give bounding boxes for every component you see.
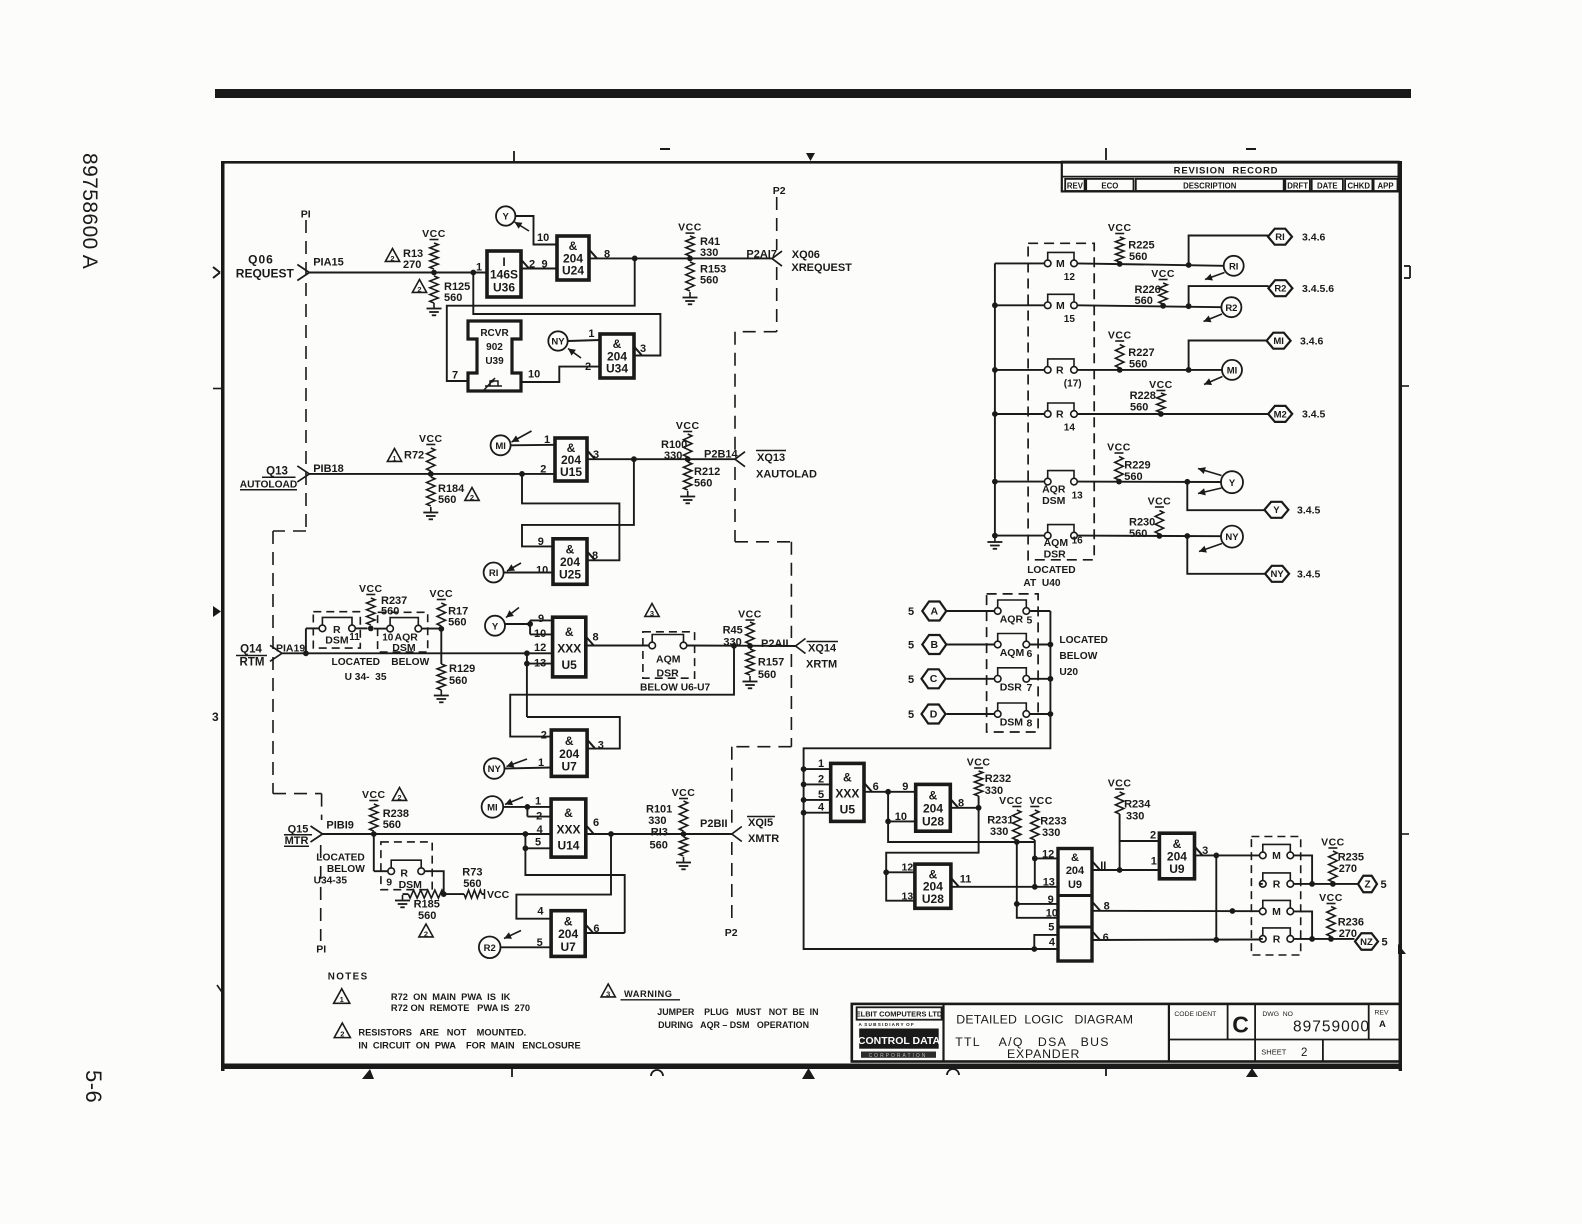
svg-text:RCVR: RCVR <box>480 328 509 339</box>
svg-text:CONTROL DATA: CONTROL DATA <box>858 1035 941 1047</box>
svg-text:VCC: VCC <box>1108 330 1132 342</box>
svg-text:1: 1 <box>538 757 544 769</box>
svg-text:NY: NY <box>1270 569 1284 580</box>
svg-text:LOCATED: LOCATED <box>316 853 364 864</box>
svg-text:1: 1 <box>544 434 550 446</box>
svg-text:R227: R227 <box>1128 347 1154 359</box>
svg-text:PIA15: PIA15 <box>313 256 344 268</box>
svg-text:R: R <box>1056 365 1064 377</box>
svg-text:270: 270 <box>1339 863 1357 875</box>
svg-text:U28: U28 <box>922 814 944 828</box>
svg-text:R157: R157 <box>758 657 784 669</box>
svg-text:VCC: VCC <box>999 795 1023 807</box>
svg-text:PIBI9: PIBI9 <box>326 820 354 832</box>
svg-text:Y: Y <box>1273 505 1280 516</box>
svg-text:R: R <box>1273 879 1281 891</box>
svg-text:VCC: VCC <box>422 228 446 240</box>
svg-text:2: 2 <box>424 930 428 939</box>
svg-text:10: 10 <box>537 232 549 244</box>
svg-text:330: 330 <box>1126 811 1144 823</box>
svg-text:560: 560 <box>650 840 668 852</box>
svg-text:VCC: VCC <box>359 583 383 595</box>
svg-text:M: M <box>1056 258 1065 270</box>
svg-text:VCC: VCC <box>967 757 991 769</box>
svg-text:U36: U36 <box>493 280 515 294</box>
svg-text:RTM: RTM <box>240 656 265 668</box>
svg-text:330: 330 <box>700 247 718 259</box>
svg-text:16: 16 <box>1072 536 1084 547</box>
svg-text:MI: MI <box>1273 336 1284 347</box>
svg-text:(17): (17) <box>1064 378 1082 389</box>
svg-text:7: 7 <box>1027 682 1033 694</box>
svg-text:NZ: NZ <box>1360 937 1373 948</box>
svg-text:2: 2 <box>417 285 421 294</box>
svg-text:1: 1 <box>588 328 594 340</box>
svg-text:2: 2 <box>397 793 401 802</box>
svg-text:5: 5 <box>1382 937 1388 949</box>
svg-text:Z: Z <box>1364 879 1370 890</box>
svg-text:C: C <box>930 673 938 685</box>
svg-text:CODE IDENT: CODE IDENT <box>1174 1011 1216 1018</box>
svg-text:JUMPER PLUG MUST NOT B: JUMPER PLUG MUST NOT BE IN <box>657 1007 818 1017</box>
svg-text:VCC: VCC <box>1319 892 1343 904</box>
svg-text:BELOW: BELOW <box>327 864 365 875</box>
svg-text:D: D <box>930 708 938 720</box>
svg-text:R228: R228 <box>1130 390 1156 402</box>
svg-text:VCC: VCC <box>678 222 702 234</box>
svg-text:3.4.6: 3.4.6 <box>1302 232 1326 244</box>
svg-text:XREQUEST: XREQUEST <box>791 262 852 274</box>
svg-text:A: A <box>931 605 939 617</box>
svg-text:560: 560 <box>700 275 718 287</box>
svg-text:560: 560 <box>1124 471 1142 483</box>
svg-text:6: 6 <box>1103 932 1109 944</box>
svg-text:AQM: AQM <box>1000 647 1025 659</box>
svg-text:P2: P2 <box>725 927 738 939</box>
svg-text:330: 330 <box>664 450 682 462</box>
svg-text:560: 560 <box>758 669 776 681</box>
svg-text:U24: U24 <box>562 264 584 278</box>
svg-text:2: 2 <box>536 811 542 823</box>
svg-text:R72: R72 <box>404 450 424 462</box>
svg-text:U7: U7 <box>562 760 578 774</box>
svg-text:5: 5 <box>1048 922 1054 934</box>
svg-text:330: 330 <box>1042 827 1060 839</box>
svg-text:DSR: DSR <box>1044 549 1067 561</box>
svg-text:12: 12 <box>902 862 914 874</box>
svg-text:3.4.5: 3.4.5 <box>1297 569 1321 581</box>
svg-text:560: 560 <box>1129 528 1147 540</box>
svg-text:REVISION RECORD: REVISION RECORD <box>1174 165 1279 176</box>
svg-text:REV: REV <box>1375 1010 1389 1017</box>
svg-text:R: R <box>400 867 408 879</box>
svg-text:6: 6 <box>593 817 599 829</box>
svg-text:1: 1 <box>340 995 344 1004</box>
svg-text:APP: APP <box>1378 182 1394 191</box>
svg-text:DSM: DSM <box>1000 717 1024 729</box>
svg-text:REV: REV <box>1067 182 1084 191</box>
svg-text:6: 6 <box>593 923 599 935</box>
svg-text:560: 560 <box>438 494 456 506</box>
svg-text:10: 10 <box>528 369 540 381</box>
svg-text:RI: RI <box>489 568 499 579</box>
svg-text:CORPORATION: CORPORATION <box>869 1053 928 1059</box>
svg-text:DRFT: DRFT <box>1287 182 1308 191</box>
svg-text:5-6: 5-6 <box>81 1070 106 1103</box>
svg-text:3: 3 <box>598 740 604 752</box>
svg-text:12: 12 <box>534 642 546 654</box>
svg-text:M: M <box>1056 300 1065 312</box>
svg-text:204: 204 <box>923 801 943 815</box>
svg-text:R: R <box>1056 409 1064 421</box>
svg-text:XXX: XXX <box>556 822 580 836</box>
svg-text:R234: R234 <box>1124 799 1151 811</box>
svg-text:5: 5 <box>1027 614 1033 626</box>
svg-text:R2: R2 <box>484 943 496 954</box>
svg-text:2: 2 <box>585 361 591 373</box>
svg-text:Y: Y <box>1229 478 1236 489</box>
svg-text:10: 10 <box>895 811 907 823</box>
svg-text:9: 9 <box>1048 894 1054 906</box>
svg-text:15: 15 <box>1064 314 1076 325</box>
svg-text:13: 13 <box>1072 491 1084 502</box>
svg-text:12: 12 <box>1064 272 1076 283</box>
svg-text:AQM: AQM <box>1044 537 1069 549</box>
svg-text:PI: PI <box>316 944 326 956</box>
svg-text:1: 1 <box>818 758 824 770</box>
svg-text:LOCATED BELOW: LOCATED BELOW <box>332 657 430 668</box>
svg-text:13: 13 <box>902 891 914 903</box>
svg-text:R2: R2 <box>1225 303 1237 314</box>
svg-text:R72 ON REMOTE PWA IS 270: R72 ON REMOTE PWA IS 270 <box>391 1003 530 1013</box>
svg-text:C: C <box>1232 1012 1249 1038</box>
svg-text:R225: R225 <box>1128 240 1154 252</box>
svg-text:U7: U7 <box>560 940 576 954</box>
svg-text:5: 5 <box>535 837 541 849</box>
svg-text:5: 5 <box>908 674 914 686</box>
svg-text:VCC: VCC <box>1148 496 1172 508</box>
svg-text:9: 9 <box>538 536 544 548</box>
svg-text:Y: Y <box>492 621 499 632</box>
svg-text:9: 9 <box>538 613 544 625</box>
svg-text:R2: R2 <box>1274 284 1286 295</box>
svg-text:560: 560 <box>449 675 467 687</box>
svg-text:13: 13 <box>1043 876 1055 888</box>
svg-text:89759000: 89759000 <box>1293 1019 1370 1036</box>
svg-text:8: 8 <box>1027 717 1033 729</box>
svg-text:M: M <box>1272 906 1281 918</box>
svg-text:R: R <box>1273 934 1281 946</box>
svg-text:10: 10 <box>534 628 546 640</box>
svg-text:NY: NY <box>1225 532 1239 543</box>
svg-text:LOCATED: LOCATED <box>1059 635 1107 646</box>
svg-text:VCC: VCC <box>1151 268 1175 280</box>
svg-text:&: & <box>843 771 852 785</box>
svg-text:10: 10 <box>536 565 548 577</box>
svg-text:10: 10 <box>1046 908 1058 920</box>
svg-text:3.4.6: 3.4.6 <box>1300 336 1324 348</box>
svg-text:MI: MI <box>487 803 498 814</box>
svg-text:LOCATED: LOCATED <box>1027 565 1075 576</box>
svg-text:P2B14: P2B14 <box>704 448 739 460</box>
svg-text:XQI5: XQI5 <box>748 817 773 829</box>
svg-text:U14: U14 <box>557 838 579 852</box>
svg-text:14: 14 <box>1064 423 1076 434</box>
svg-text:VCC: VCC <box>738 609 762 621</box>
svg-text:U39: U39 <box>485 356 504 367</box>
svg-text:VCC: VCC <box>1108 222 1132 234</box>
svg-text:560: 560 <box>383 819 401 831</box>
svg-text:2: 2 <box>541 730 547 742</box>
svg-text:&: & <box>929 788 938 802</box>
svg-text:560: 560 <box>463 878 481 890</box>
svg-text:U9: U9 <box>1068 879 1082 891</box>
svg-text:XRTM: XRTM <box>806 659 837 671</box>
svg-text:XXX: XXX <box>557 641 581 655</box>
svg-text:R73: R73 <box>462 867 482 879</box>
svg-text:R129: R129 <box>449 663 475 675</box>
svg-text:MI: MI <box>1227 366 1238 377</box>
svg-text:Y: Y <box>503 212 510 223</box>
svg-text:XXX: XXX <box>835 787 859 801</box>
svg-text:VCC: VCC <box>1029 795 1053 807</box>
svg-text:1: 1 <box>1151 856 1157 868</box>
svg-text:XQ06: XQ06 <box>792 249 820 261</box>
svg-text:U 34- 35: U 34- 35 <box>345 672 387 683</box>
svg-text:WARNING: WARNING <box>624 989 672 999</box>
svg-text:9: 9 <box>542 259 548 271</box>
svg-text:2: 2 <box>1301 1047 1307 1059</box>
svg-text:XQ13: XQ13 <box>757 452 785 464</box>
svg-text:RI3: RI3 <box>651 826 668 838</box>
svg-text:P2: P2 <box>773 185 786 197</box>
svg-text:Q15: Q15 <box>288 823 309 835</box>
svg-text:560: 560 <box>444 292 462 304</box>
svg-text:560: 560 <box>448 616 466 628</box>
svg-text:2: 2 <box>470 493 474 502</box>
svg-text:VCC: VCC <box>676 420 700 432</box>
svg-text:U5: U5 <box>562 658 578 672</box>
svg-text:5: 5 <box>908 606 914 618</box>
svg-text:NY: NY <box>488 764 502 775</box>
svg-text:U9: U9 <box>1169 862 1185 876</box>
svg-text:3: 3 <box>650 609 654 618</box>
svg-text:VCC: VCC <box>362 789 386 801</box>
svg-text:U34: U34 <box>606 362 628 376</box>
svg-text:3: 3 <box>640 343 646 355</box>
svg-text:12: 12 <box>1042 849 1054 861</box>
svg-text:RI: RI <box>1229 261 1239 272</box>
svg-text:8: 8 <box>604 248 610 260</box>
svg-text:RESISTORS ARE NOT MOUNT: RESISTORS ARE NOT MOUNTED. <box>358 1028 526 1038</box>
svg-text:560: 560 <box>418 910 436 922</box>
svg-text:R231: R231 <box>987 815 1013 827</box>
svg-text:2: 2 <box>340 1030 344 1039</box>
svg-text:DSM: DSM <box>1042 495 1066 507</box>
svg-text:IN CIRCUIT ON PWA FOR M: IN CIRCUIT ON PWA FOR MAIN ENCLOSURE <box>358 1040 580 1050</box>
svg-text:XAUTOLAD: XAUTOLAD <box>756 469 817 481</box>
svg-text:M2: M2 <box>1274 409 1287 420</box>
svg-text:U25: U25 <box>559 568 581 582</box>
svg-text:VCC: VCC <box>429 588 453 600</box>
svg-text:VCC: VCC <box>1107 442 1131 454</box>
svg-text:P2AII: P2AII <box>761 638 789 650</box>
svg-text:5: 5 <box>818 789 824 801</box>
svg-text:DWG NO: DWG NO <box>1262 1011 1293 1018</box>
svg-text:11: 11 <box>349 632 360 643</box>
svg-text:5: 5 <box>1381 879 1387 891</box>
svg-text:3.4.5: 3.4.5 <box>1302 409 1326 421</box>
svg-text:4: 4 <box>1049 937 1056 949</box>
svg-text:Q14: Q14 <box>240 644 262 656</box>
svg-text:RI: RI <box>1275 232 1285 243</box>
svg-text:VCC: VCC <box>487 889 510 901</box>
svg-text:XMTR: XMTR <box>748 833 779 845</box>
svg-text:A S U B S I D I A R Y O F: A S U B S I D I A R Y O F <box>859 1022 914 1027</box>
svg-text:9: 9 <box>386 876 392 888</box>
svg-text:270: 270 <box>1339 928 1357 940</box>
svg-text:R233: R233 <box>1040 816 1066 828</box>
svg-text:R45: R45 <box>723 625 743 637</box>
svg-text:89758600 A: 89758600 A <box>78 153 101 269</box>
svg-text:8: 8 <box>592 550 598 562</box>
svg-text:R101: R101 <box>646 803 672 815</box>
svg-text:ECO: ECO <box>1101 182 1118 191</box>
svg-text:5: 5 <box>908 640 914 652</box>
svg-text:EXPANDER: EXPANDER <box>1007 1047 1080 1061</box>
svg-text:VCC: VCC <box>672 787 696 799</box>
svg-text:3: 3 <box>606 990 610 999</box>
svg-text:AQR: AQR <box>1042 483 1066 495</box>
svg-text:3.4.5.6: 3.4.5.6 <box>1302 283 1334 295</box>
svg-text:4: 4 <box>537 906 544 918</box>
svg-text:560: 560 <box>1130 402 1148 414</box>
svg-text:R72 ON MAIN PWA IS IK: R72 ON MAIN PWA IS IK <box>391 992 511 1002</box>
svg-text:3.4.5: 3.4.5 <box>1297 505 1321 517</box>
svg-text:2: 2 <box>1150 830 1156 842</box>
svg-text:1: 1 <box>476 262 482 274</box>
svg-text:VCC: VCC <box>419 433 443 445</box>
svg-text:5: 5 <box>908 709 914 721</box>
svg-text:U20: U20 <box>1059 667 1078 678</box>
svg-text:560: 560 <box>694 478 712 490</box>
svg-text:R212: R212 <box>694 466 720 478</box>
svg-text:AQM: AQM <box>656 654 681 666</box>
svg-text:DETAILED LOGIC DIAGRAM: DETAILED LOGIC DIAGRAM <box>956 1012 1133 1026</box>
svg-text:Q06: Q06 <box>248 252 274 266</box>
svg-text:4: 4 <box>818 802 825 814</box>
svg-text:BELOW: BELOW <box>1059 651 1097 662</box>
svg-text:330: 330 <box>990 826 1008 838</box>
svg-text:U5: U5 <box>840 803 856 817</box>
svg-text:XQ14: XQ14 <box>808 643 837 655</box>
svg-text:CHKD: CHKD <box>1347 182 1370 191</box>
svg-text:R236: R236 <box>1338 917 1364 929</box>
svg-text:U15: U15 <box>560 465 582 479</box>
svg-text:9: 9 <box>902 781 908 793</box>
svg-text:VCC: VCC <box>1108 778 1132 790</box>
svg-text:2: 2 <box>529 259 535 271</box>
svg-text:DESCRIPTION: DESCRIPTION <box>1183 182 1237 191</box>
svg-text:B: B <box>931 639 939 651</box>
svg-text:8: 8 <box>593 632 599 644</box>
svg-text:560: 560 <box>1129 359 1147 371</box>
svg-text:560: 560 <box>1129 251 1147 263</box>
svg-text:&: & <box>565 625 574 639</box>
svg-text:SHEET: SHEET <box>1261 1048 1286 1057</box>
svg-text:U34-35: U34-35 <box>314 876 348 887</box>
svg-text:2: 2 <box>390 254 394 263</box>
svg-text:330: 330 <box>723 637 741 649</box>
svg-text:DSM: DSM <box>325 635 349 647</box>
svg-text:P2BII: P2BII <box>700 818 728 830</box>
svg-text:R235: R235 <box>1338 852 1364 864</box>
svg-text:204: 204 <box>1066 865 1085 877</box>
svg-text:DATE: DATE <box>1317 182 1338 191</box>
svg-text:AQR: AQR <box>1000 614 1024 626</box>
svg-text:REQUEST: REQUEST <box>236 267 295 281</box>
svg-text:2: 2 <box>818 773 824 785</box>
svg-text:DURING AQR – DSM OPERATION: DURING AQR – DSM OPERATION <box>658 1020 809 1030</box>
svg-text:&: & <box>564 806 573 820</box>
svg-text:M: M <box>1272 850 1281 862</box>
svg-text:560: 560 <box>1135 295 1153 307</box>
svg-text:R232: R232 <box>985 773 1011 785</box>
svg-text:MI: MI <box>495 441 506 452</box>
svg-text:NY: NY <box>551 337 565 348</box>
svg-text:AUTOLOAD: AUTOLOAD <box>240 479 298 490</box>
svg-text:R185: R185 <box>414 898 440 910</box>
svg-text:1: 1 <box>535 796 541 808</box>
svg-text:11: 11 <box>960 874 972 886</box>
svg-text:A: A <box>1379 1019 1386 1030</box>
svg-text:4: 4 <box>537 824 544 836</box>
svg-text:NOTES: NOTES <box>328 971 369 982</box>
svg-text:R230: R230 <box>1129 517 1155 529</box>
svg-text:R229: R229 <box>1124 459 1150 471</box>
svg-text:1: 1 <box>392 454 396 463</box>
svg-text:ELBIT COMPUTERS LTD: ELBIT COMPUTERS LTD <box>856 1010 943 1019</box>
svg-text:&: & <box>1071 852 1079 864</box>
svg-text:U28: U28 <box>922 892 944 906</box>
svg-text:270: 270 <box>403 259 421 271</box>
svg-text:AT U40: AT U40 <box>1023 578 1061 589</box>
svg-text:902: 902 <box>486 342 503 353</box>
svg-text:VCC: VCC <box>1321 837 1345 849</box>
svg-text:2: 2 <box>540 464 546 476</box>
svg-text:DSR: DSR <box>1000 681 1023 693</box>
svg-text:MTR: MTR <box>285 835 309 847</box>
svg-text:7: 7 <box>452 370 458 382</box>
svg-text:Q13: Q13 <box>266 466 288 478</box>
svg-text:BELOW U6-U7: BELOW U6-U7 <box>640 683 711 694</box>
svg-text:PI: PI <box>301 209 311 221</box>
svg-text:3: 3 <box>212 710 219 724</box>
svg-text:6: 6 <box>1027 648 1033 660</box>
